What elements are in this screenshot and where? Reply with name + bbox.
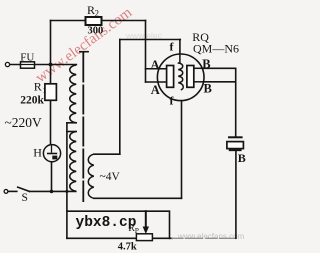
svg-text:FU: FU	[20, 52, 34, 64]
svg-text:A: A	[151, 83, 160, 97]
svg-text:B: B	[204, 82, 212, 96]
svg-text:4.7k: 4.7k	[118, 241, 137, 252]
svg-text:S: S	[22, 192, 28, 204]
svg-text:A: A	[151, 58, 160, 72]
svg-text:R: R	[34, 80, 42, 94]
svg-text:300: 300	[88, 26, 104, 37]
svg-text:220k: 220k	[20, 94, 44, 106]
svg-text:ybx8.cp: ybx8.cp	[76, 215, 137, 231]
svg-text:~4V: ~4V	[100, 171, 121, 183]
svg-text:QM—N6: QM—N6	[193, 41, 239, 55]
svg-text:B: B	[238, 151, 246, 165]
svg-text:B: B	[202, 57, 210, 71]
svg-text:www.elecfans.com: www.elecfans.com	[177, 232, 245, 241]
svg-text:H: H	[33, 145, 42, 159]
svg-text:2: 2	[95, 9, 100, 19]
svg-text:~220V: ~220V	[5, 115, 43, 130]
